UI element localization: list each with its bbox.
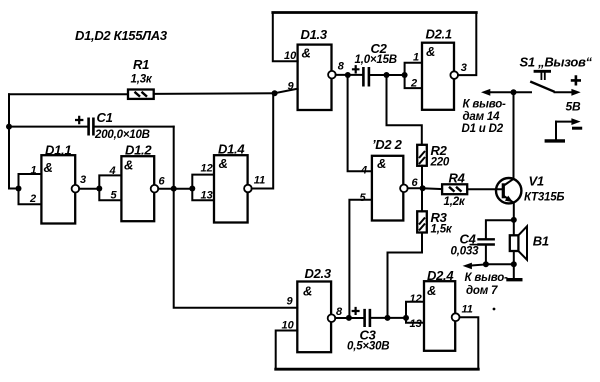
wire D2.2 pin 5 riser to C3 node [349, 200, 372, 318]
wire R3 top [421, 188, 423, 211]
svg-text:1,5к: 1,5к [431, 223, 453, 235]
wire to switch S1 [514, 91, 532, 93]
svg-text:В1: В1 [533, 233, 549, 248]
speck [493, 308, 496, 311]
svg-text:12: 12 [201, 162, 213, 174]
svg-text:D1 и D2: D1 и D2 [462, 123, 504, 135]
wire minus to ground [555, 122, 557, 140]
wire input bracket D1.2 pins 4-5 [99, 175, 121, 200]
label K vyvodom 7 [465, 272, 509, 297]
wire C1 drop to D1.2 output and D2.3 pin 9 [174, 127, 298, 308]
wire input bracket D1.1 pins 1-2 [19, 174, 42, 204]
inverter bubble D1.4 output [244, 185, 252, 193]
svg-text:220: 220 [430, 156, 450, 168]
svg-text:5: 5 [360, 192, 367, 204]
node junction R1/D1.3 pin9 [272, 90, 278, 96]
svg-text:13: 13 [201, 189, 213, 201]
svg-text:6: 6 [159, 175, 166, 187]
node junction R2/R3/R4 [420, 185, 426, 191]
wire S1 to plus with arrow [555, 89, 581, 96]
svg-text:К выво-: К выво- [463, 98, 507, 110]
wire R4 left [423, 187, 443, 190]
capacitor C2 [363, 67, 369, 87]
node junction speaker bottom [511, 261, 517, 267]
wire emitter ground segment [486, 263, 514, 265]
node junction C3 left / D2.2 pin5 riser [346, 315, 352, 321]
svg-text:2: 2 [29, 193, 36, 205]
minus sign [572, 127, 582, 130]
node junction D1.2 inputs [96, 186, 102, 192]
node junction R3 drop [385, 315, 391, 321]
svg-text:V1: V1 [529, 173, 544, 188]
svg-text:2: 2 [410, 77, 417, 89]
wire emitter drop [513, 203, 515, 235]
inverter bubble D2.3 output pin 8 [328, 314, 336, 322]
switch S1 [530, 71, 554, 92]
wire collector riser [513, 92, 515, 178]
svg-text:&: & [44, 160, 53, 175]
svg-text:D1.1: D1.1 [45, 142, 71, 157]
node junction D2.4 inputs [403, 315, 409, 321]
wire R1 left segment [9, 93, 128, 95]
svg-text:&: & [303, 283, 312, 298]
svg-text:D2.4: D2.4 [427, 268, 454, 283]
gate D1.1 [41, 155, 75, 223]
svg-text:D2.3: D2.3 [305, 266, 332, 281]
svg-text:10: 10 [284, 50, 297, 62]
wire D2.4 out drop [460, 317, 479, 369]
svg-text:1: 1 [31, 165, 37, 177]
svg-text:D1.2: D1.2 [125, 142, 152, 157]
svg-text:К выво-: К выво- [465, 272, 509, 284]
wire C2 node to R2 top [387, 75, 422, 145]
wire R1 right segment [154, 92, 275, 95]
wire D2.2 out to junction [408, 187, 423, 189]
wire C2 right segment [370, 74, 405, 76]
svg-text:&: & [219, 156, 228, 171]
inverter bubble D1.2 output [151, 185, 159, 193]
node junction C2 right / R2 tap [384, 72, 390, 78]
svg-text:&: & [124, 157, 133, 172]
wire C4 bottom drop [485, 246, 487, 265]
wire to D1.3 pin 9 [275, 89, 298, 94]
capacitor C4 [477, 239, 495, 244]
svg-text:’D2 2: ’D2 2 [372, 137, 403, 152]
ground symbol top right [545, 139, 565, 142]
svg-text:D1,D2 К155ЛА3: D1,D2 К155ЛА3 [75, 28, 168, 43]
resistor R4 [442, 184, 467, 194]
wire D2.3 pin 10 from bottom feedback [276, 331, 298, 370]
svg-text:9: 9 [287, 295, 294, 307]
svg-text:&: & [302, 45, 311, 60]
svg-text:&: & [427, 283, 436, 298]
wire D2.1 out riser to top feedback [458, 13, 476, 76]
node junction rail / D1.1 inputs [16, 186, 22, 192]
wire to pins 14 with arrow [481, 89, 514, 96]
wire input bracket D2.1 pins 1-2 [405, 63, 422, 88]
wire to pin 7 with arrow [463, 263, 486, 270]
wire C4 branch [486, 220, 514, 238]
svg-text:8: 8 [338, 60, 345, 72]
svg-text:дам 14: дам 14 [463, 111, 501, 123]
node junction left rail / C1 [6, 124, 12, 130]
svg-text:11: 11 [254, 174, 265, 186]
inverter bubble D2.4 output pin 11 [452, 313, 460, 321]
svg-text:0,5×30В: 0,5×30В [347, 341, 389, 353]
svg-text:5: 5 [111, 189, 118, 201]
wire D1.2 out to D1.4 in [158, 188, 192, 190]
inverter bubble D1.3 output pin 8 [328, 71, 336, 79]
svg-text:КТ315Б: КТ315Б [524, 191, 564, 203]
capacitor C3 [365, 309, 370, 327]
inverter bubble D2.2 output [400, 185, 408, 193]
wire D1.4 out riser to R1 node [252, 93, 274, 188]
wire riser to D2.2 pin 4 [348, 75, 372, 171]
gate D1.3 [298, 45, 332, 110]
gate D2.1 [422, 43, 454, 110]
resistor R3 [417, 211, 427, 232]
wire R4 right to base [467, 188, 502, 190]
wire bottom feedback [276, 368, 479, 371]
wire C3 right segment [371, 317, 406, 319]
capacitor C3 polarity plus [352, 307, 360, 315]
gate D2.3 [297, 282, 331, 353]
svg-text:D2.1: D2.1 [426, 26, 452, 41]
minus terminal wire with arrow [556, 118, 581, 125]
svg-text:13: 13 [410, 318, 422, 330]
capacitor C1 polarity plus [75, 116, 83, 124]
capacitor C2 polarity plus [352, 65, 360, 73]
plus terminal [571, 75, 581, 85]
gate D1.2 [121, 156, 154, 221]
node junction C1 drop [171, 186, 177, 192]
node junction D1.4 inputs [189, 186, 195, 192]
wire top feedback D2.1 out to D1.3 pin 10 [273, 11, 477, 14]
svg-text:9: 9 [288, 80, 295, 92]
svg-text:0,033: 0,033 [451, 245, 480, 257]
transistor V1 [496, 178, 521, 203]
svg-text:3: 3 [461, 62, 467, 74]
svg-text:R1: R1 [133, 57, 149, 72]
wire D2.3 out to C3 [335, 317, 364, 319]
label K vyvodam 14 D1 i D2 [462, 98, 507, 135]
svg-text:дом 7: дом 7 [466, 285, 498, 297]
wire input bracket D2.4 pins 12-13 [406, 302, 424, 323]
resistor R2 [417, 145, 427, 166]
svg-text:1: 1 [413, 51, 419, 63]
svg-text:1,2к: 1,2к [444, 196, 466, 208]
wire C1 left segment [9, 126, 87, 128]
wire R2 bottom [421, 166, 423, 189]
svg-text:C1: C1 [97, 110, 113, 125]
svg-text:S1 „Вызов“: S1 „Вызов“ [520, 54, 593, 69]
gate D1.4 [214, 155, 248, 222]
wire C1 right segment [95, 126, 174, 128]
svg-text:R4: R4 [449, 170, 466, 185]
svg-text:3: 3 [80, 174, 86, 186]
svg-text:12: 12 [410, 293, 422, 305]
gate D2.4 [424, 281, 455, 351]
node junction emitter / C4 [511, 217, 517, 223]
resistor R1 [128, 90, 154, 99]
svg-text:6: 6 [412, 177, 419, 189]
wire left rail [9, 94, 19, 188]
svg-text:4: 4 [360, 164, 367, 176]
svg-text:4: 4 [109, 165, 116, 177]
svg-text:D1.4: D1.4 [218, 141, 245, 156]
svg-text:D1.3: D1.3 [301, 27, 328, 42]
inverter bubble D1.1 output [72, 185, 80, 193]
svg-text:&: & [377, 156, 386, 171]
capacitor C1 [89, 118, 94, 136]
node junction D2.1 inputs [402, 72, 408, 78]
wire D1.1 out to D1.2 in [79, 188, 99, 190]
wire D1.3 out to C2 [336, 74, 363, 76]
node junction C2 left / D2.2 pin4 riser [345, 72, 351, 78]
svg-text:1,0×15В: 1,0×15В [355, 54, 397, 66]
node junction collector / supply [511, 89, 517, 95]
svg-text:1,3к: 1,3к [131, 74, 153, 86]
svg-text:8: 8 [336, 306, 343, 318]
node junction C4 / ground wire [483, 261, 489, 267]
speaker B1 [510, 226, 527, 259]
svg-text:11: 11 [462, 303, 473, 315]
svg-text:200,0×10В: 200,0×10В [94, 129, 150, 141]
inverter bubble D2.1 output [450, 71, 458, 79]
wire R3 bottom to C3 node [388, 233, 423, 318]
ground symbol bottom [506, 278, 522, 281]
wire D1.3 pin 10 drop [273, 13, 298, 62]
gate D2.2 [372, 156, 403, 221]
wire speaker to ground [513, 251, 515, 278]
wire input bracket D1.4 pins 12-13 [192, 175, 214, 201]
svg-text:&: & [426, 44, 435, 59]
svg-text:5В: 5В [566, 99, 581, 113]
